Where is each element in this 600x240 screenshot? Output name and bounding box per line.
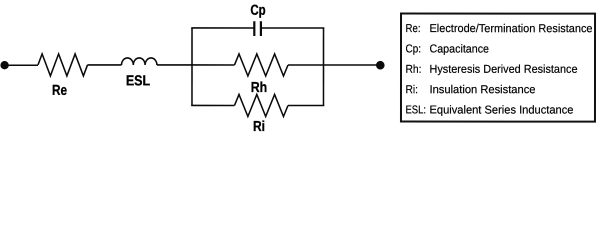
svg-text:ESL: ESL — [126, 73, 150, 89]
svg-text:Cp:: Cp: — [406, 43, 422, 55]
right rail of parallel network — [322, 28, 324, 106]
svg-text:Re:: Re: — [406, 23, 421, 35]
wire parallel network to right terminal — [324, 64, 382, 66]
left rail of parallel network — [191, 28, 193, 105]
resistor Ri — [234, 94, 288, 116]
svg-text:Capacitance: Capacitance — [430, 43, 490, 55]
resistor Re — [38, 54, 88, 76]
wire ESL to parallel network — [157, 64, 192, 66]
svg-text:Rh: Rh — [251, 80, 268, 96]
svg-text:Rh:: Rh: — [405, 64, 421, 76]
right terminal node — [376, 61, 385, 70]
wire middle branch right — [288, 64, 324, 66]
svg-text:Electrode/Termination Resistan: Electrode/Termination Resistance — [430, 23, 593, 35]
svg-text:Ri:: Ri: — [405, 84, 418, 96]
wire middle branch left — [192, 64, 235, 66]
wire left terminal to Re — [5, 64, 38, 66]
wire Re to ESL — [88, 64, 122, 66]
svg-text:Re: Re — [52, 83, 67, 99]
wire top branch right — [261, 27, 324, 29]
wire top branch left — [191, 27, 254, 29]
inductor ESL — [122, 58, 157, 65]
svg-text:ESL:: ESL: — [405, 104, 426, 116]
svg-text:Equivalent Series Inductance: Equivalent Series Inductance — [429, 104, 573, 116]
svg-text:Ri: Ri — [253, 119, 265, 135]
capacitor Cp — [253, 21, 255, 36]
wire bottom branch right — [288, 104, 324, 106]
svg-text:Insulation Resistance: Insulation Resistance — [429, 84, 535, 96]
wire bottom branch left — [191, 104, 234, 106]
svg-text:Cp: Cp — [250, 3, 265, 19]
left terminal node — [0, 61, 8, 69]
svg-text:Hysteresis Derived Resistance: Hysteresis Derived Resistance — [429, 64, 577, 76]
resistor Rh — [234, 54, 288, 76]
legend box — [401, 14, 595, 122]
